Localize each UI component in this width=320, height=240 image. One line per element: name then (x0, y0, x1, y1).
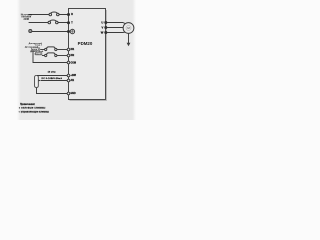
svg-text:10 кОм: 10 кОм (48, 72, 56, 74)
svg-text:W: W (101, 31, 104, 35)
svg-text:● силовые клеммы: ● силовые клеммы (19, 106, 46, 109)
svg-text:PDM20: PDM20 (78, 41, 93, 46)
svg-text:U: U (101, 21, 103, 25)
svg-text:220В: 220В (23, 18, 29, 21)
svg-text:DC 0-10В/0-20мА: DC 0-10В/0-20мА (42, 77, 63, 80)
svg-text:Дискретный: Дискретный (25, 45, 39, 48)
svg-text:вход 2: вход 2 (34, 54, 42, 56)
svg-text:COM: COM (71, 62, 76, 64)
svg-text:+10В: +10В (71, 75, 77, 77)
svg-text:○ управляющие клеммы: ○ управляющие клеммы (19, 110, 49, 113)
svg-text:GND: GND (71, 93, 76, 95)
svg-text:V: V (102, 26, 104, 30)
